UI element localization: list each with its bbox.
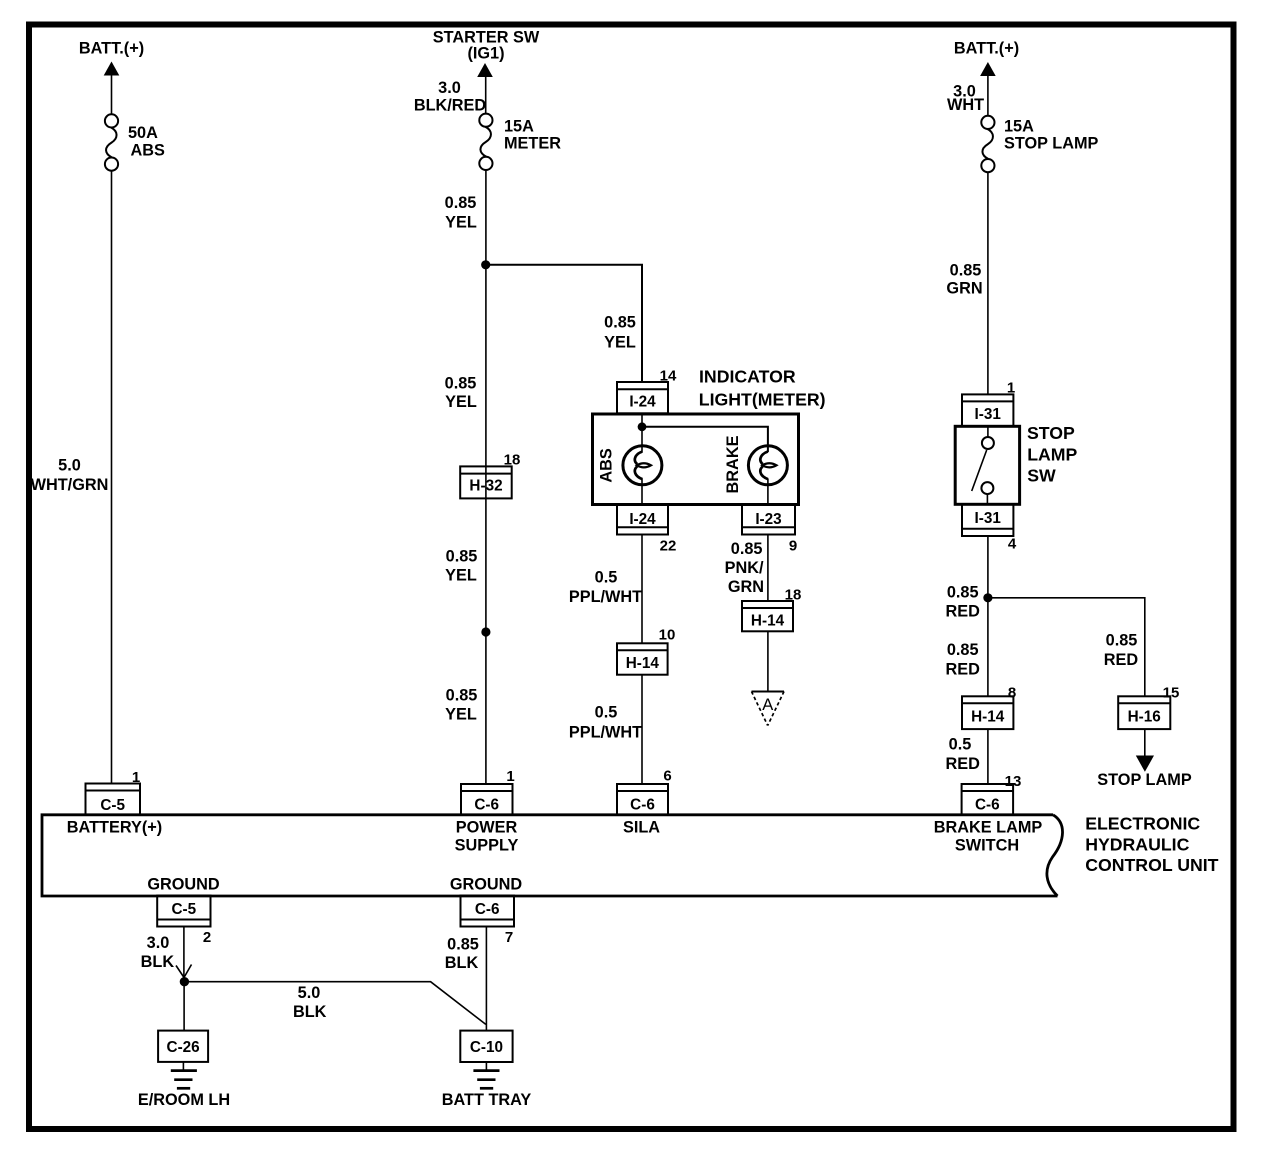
connector H-32: [460, 466, 512, 498]
svg-text:50A: 50A: [128, 124, 158, 142]
wire: [641, 535, 643, 644]
wire: [641, 479, 643, 505]
svg-text:STOP LAMP: STOP LAMP: [1097, 771, 1192, 789]
connector I-24 (top): [617, 382, 668, 413]
junction node (in box): [638, 422, 647, 431]
svg-text:LAMP: LAMP: [1027, 444, 1077, 464]
svg-text:5.0: 5.0: [298, 984, 321, 1002]
connector C-6 (brake lamp sw): [962, 784, 1014, 815]
svg-text:ABS: ABS: [131, 142, 166, 160]
connector C-6 (power supply): [461, 784, 513, 815]
svg-text:SWITCH: SWITCH: [955, 837, 1019, 855]
svg-text:SUPPLY: SUPPLY: [455, 837, 519, 855]
svg-text:5.0: 5.0: [58, 457, 81, 475]
svg-text:METER: METER: [504, 135, 561, 153]
connector H-16: [1118, 696, 1170, 729]
svg-text:0.5: 0.5: [595, 569, 618, 587]
svg-text:I-23: I-23: [755, 511, 781, 528]
connector C-10: [460, 1031, 512, 1062]
svg-text:YEL: YEL: [445, 706, 477, 724]
svg-text:C-5: C-5: [100, 797, 125, 814]
svg-text:BATT.(+): BATT.(+): [79, 40, 144, 58]
svg-text:0.85: 0.85: [604, 314, 636, 332]
wire: [987, 76, 989, 117]
junction node: [481, 627, 490, 636]
wire branch to H-16: [988, 598, 1145, 697]
wire splice to batt tray ground: [184, 982, 485, 1025]
svg-text:PPL/WHT: PPL/WHT: [569, 588, 642, 606]
svg-text:RED: RED: [946, 661, 981, 679]
svg-text:BLK: BLK: [293, 1003, 327, 1021]
svg-text:15A: 15A: [504, 118, 534, 136]
svg-text:CONTROL UNIT: CONTROL UNIT: [1085, 855, 1218, 875]
svg-text:BRAKE LAMP: BRAKE LAMP: [934, 819, 1043, 837]
svg-text:BLK: BLK: [141, 953, 175, 971]
wire branch to I-24: [486, 265, 642, 382]
svg-text:0.85: 0.85: [447, 936, 479, 954]
svg-text:GRN: GRN: [728, 578, 764, 596]
svg-text:C-5: C-5: [171, 901, 196, 918]
wire: [183, 982, 185, 1031]
svg-text:SILA: SILA: [623, 819, 660, 837]
svg-text:YEL: YEL: [445, 393, 477, 411]
arrowhead (into splice): [176, 965, 192, 978]
wire to brake bulb: [642, 427, 768, 452]
svg-text:H-16: H-16: [1128, 709, 1161, 726]
svg-text:7: 7: [505, 929, 513, 946]
wire: [987, 729, 989, 784]
svg-text:STOP: STOP: [1027, 423, 1075, 443]
wire: [111, 171, 113, 784]
svg-text:(IG1): (IG1): [467, 45, 504, 63]
svg-text:YEL: YEL: [604, 334, 636, 352]
wire: [767, 479, 769, 505]
svg-text:H-14: H-14: [971, 709, 1005, 726]
svg-text:BLK: BLK: [445, 954, 479, 972]
connector C-26: [158, 1031, 208, 1062]
connector H-14 (brake ind.): [742, 601, 793, 631]
svg-text:0.85: 0.85: [950, 262, 982, 280]
svg-text:RED: RED: [946, 755, 981, 773]
fuse F2 15A METER: [479, 114, 492, 170]
svg-text:YEL: YEL: [445, 214, 477, 232]
svg-text:0.85: 0.85: [947, 641, 979, 659]
svg-text:10: 10: [659, 627, 676, 644]
connector I-31 (bottom): [962, 504, 1013, 536]
power arrow BATT(+) left: [104, 62, 120, 76]
junction splice node: [180, 977, 189, 986]
svg-text:C-6: C-6: [474, 797, 499, 814]
svg-text:A: A: [762, 696, 773, 714]
svg-text:8: 8: [1008, 685, 1016, 702]
svg-text:2: 2: [203, 929, 211, 946]
svg-text:I-24: I-24: [629, 394, 656, 411]
junction node: [481, 260, 490, 269]
svg-text:ELECTRONIC: ELECTRONIC: [1085, 814, 1200, 834]
svg-text:C-10: C-10: [470, 1039, 503, 1056]
svg-text:GROUND: GROUND: [450, 876, 523, 894]
off-page connector A: [752, 692, 785, 726]
svg-text:BLK/RED: BLK/RED: [414, 97, 487, 115]
svg-text:C-26: C-26: [167, 1039, 200, 1056]
svg-text:BATT.(+): BATT.(+): [954, 40, 1019, 58]
svg-text:YEL: YEL: [445, 567, 477, 585]
svg-text:ABS: ABS: [598, 448, 616, 483]
power arrow BATT(+) right: [980, 62, 996, 76]
wavy right edge of ECU box: [1047, 815, 1063, 896]
svg-text:1: 1: [506, 768, 514, 785]
wire: [641, 675, 643, 784]
svg-text:H-14: H-14: [626, 655, 660, 672]
svg-text:C-6: C-6: [475, 901, 500, 918]
svg-text:I-31: I-31: [975, 510, 1002, 527]
svg-text:0.85: 0.85: [1106, 632, 1138, 650]
svg-text:3.0: 3.0: [438, 79, 461, 97]
svg-text:3.0: 3.0: [147, 934, 170, 952]
svg-text:PNK/: PNK/: [725, 559, 764, 577]
box ELECTRONIC HYDRAULIC CONTROL UNIT: [42, 815, 1058, 896]
svg-text:STOP LAMP: STOP LAMP: [1004, 135, 1099, 153]
svg-text:H-14: H-14: [751, 613, 785, 630]
connector H-14 (brake sw): [962, 696, 1013, 729]
wire: [767, 631, 769, 691]
junction node: [983, 593, 992, 602]
wire: [485, 170, 487, 784]
connector C-5 (battery feed): [86, 784, 141, 815]
svg-text:C-6: C-6: [630, 797, 655, 814]
svg-text:0.85: 0.85: [446, 548, 478, 566]
svg-text:C-6: C-6: [975, 797, 1000, 814]
fuse F1 50A ABS: [105, 114, 118, 170]
svg-text:0.85: 0.85: [445, 194, 477, 212]
ground E/ROOM LH: [171, 1062, 197, 1088]
wire: [485, 77, 487, 115]
svg-text:I-31: I-31: [975, 406, 1002, 423]
wire: [1144, 729, 1146, 756]
svg-text:INDICATOR: INDICATOR: [699, 367, 796, 387]
svg-text:22: 22: [660, 538, 677, 555]
svg-text:0.85: 0.85: [731, 540, 763, 558]
connector I-24 (bottom): [617, 505, 668, 535]
connector H-14 (SILA line): [617, 643, 668, 674]
connector C-5 (ground): [157, 896, 210, 927]
svg-text:WHT: WHT: [947, 96, 984, 114]
svg-text:BATTERY(+): BATTERY(+): [67, 819, 162, 837]
svg-text:LIGHT(METER): LIGHT(METER): [699, 389, 826, 409]
svg-text:15A: 15A: [1004, 117, 1034, 135]
svg-text:RED: RED: [946, 603, 981, 621]
svg-text:GRN: GRN: [946, 280, 982, 298]
wire: [111, 75, 113, 115]
lamp BRAKE (indicator bulb): [748, 446, 787, 485]
connector I-31 (top): [962, 394, 1013, 426]
svg-text:E/ROOM LH: E/ROOM LH: [138, 1091, 230, 1109]
power arrow STARTER SW: [477, 63, 493, 77]
svg-text:H-32: H-32: [469, 478, 502, 495]
arrow to STOP LAMP: [1136, 756, 1154, 772]
switch STOP LAMP SW: [955, 426, 1019, 504]
svg-text:POWER: POWER: [456, 819, 518, 837]
svg-text:SW: SW: [1027, 465, 1056, 485]
svg-text:4: 4: [1008, 536, 1017, 553]
wire: [987, 536, 989, 696]
fuse F3 15A STOP LAMP: [981, 116, 994, 172]
connector C-6 (ground): [461, 896, 515, 927]
svg-text:0.85: 0.85: [445, 375, 477, 393]
wire: [641, 414, 643, 452]
svg-text:HYDRAULIC: HYDRAULIC: [1085, 835, 1189, 855]
svg-text:RED: RED: [1104, 651, 1139, 669]
svg-text:PPL/WHT: PPL/WHT: [569, 724, 642, 742]
svg-text:6: 6: [663, 768, 671, 785]
svg-text:0.85: 0.85: [446, 687, 478, 705]
connector I-23 (bottom): [742, 505, 795, 535]
wire: [485, 927, 487, 1031]
svg-text:9: 9: [789, 538, 797, 555]
svg-text:GROUND: GROUND: [147, 876, 220, 894]
svg-text:I-24: I-24: [629, 511, 656, 528]
wire: [183, 927, 185, 982]
lamp ABS (indicator bulb): [623, 446, 662, 485]
svg-text:WHT/GRN: WHT/GRN: [31, 476, 109, 494]
svg-text:0.5: 0.5: [949, 736, 972, 754]
svg-text:0.85: 0.85: [947, 584, 979, 602]
ground BATT TRAY: [473, 1062, 499, 1088]
wire: [987, 172, 989, 394]
svg-text:BRAKE: BRAKE: [724, 435, 742, 493]
indicator light box: [593, 414, 799, 505]
wire: [767, 535, 769, 602]
svg-text:BATT TRAY: BATT TRAY: [442, 1091, 532, 1109]
connector C-6 (SILA): [617, 784, 668, 815]
svg-text:0.5: 0.5: [595, 704, 618, 722]
